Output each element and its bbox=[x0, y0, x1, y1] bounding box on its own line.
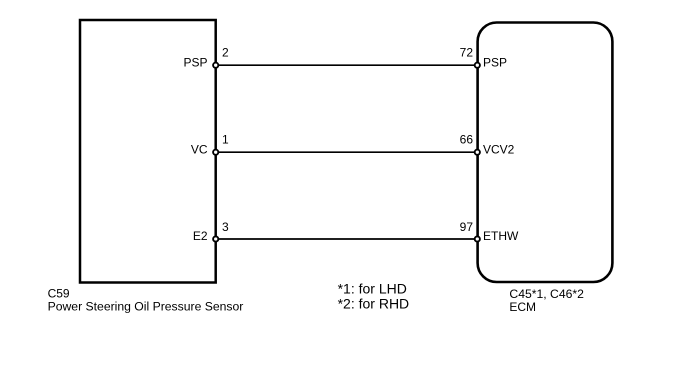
svg-text:PSP: PSP bbox=[183, 55, 207, 69]
ECM box C45/C46 bbox=[478, 23, 613, 283]
svg-text:E2: E2 bbox=[193, 229, 208, 243]
terminal circle sensor pin 1 bbox=[213, 150, 218, 155]
svg-text:2: 2 bbox=[222, 45, 229, 59]
svg-text:PSP: PSP bbox=[483, 55, 507, 69]
svg-text:66: 66 bbox=[460, 133, 474, 147]
svg-text:ETHW: ETHW bbox=[483, 229, 519, 243]
wire E2 to ETHW (pin 3 to pin 97) bbox=[216, 238, 478, 240]
wire VC to VCV2 (pin 1 to pin 66) bbox=[216, 151, 478, 153]
svg-text:Power Steering Oil Pressure Se: Power Steering Oil Pressure Sensor bbox=[48, 300, 244, 314]
connector box C59 Power Steering Oil Pressure Sensor bbox=[80, 20, 216, 283]
svg-text:1: 1 bbox=[222, 133, 229, 147]
svg-text:72: 72 bbox=[460, 45, 474, 59]
terminal circle sensor pin 2 bbox=[213, 63, 218, 68]
svg-text:C45*1, C46*2: C45*1, C46*2 bbox=[509, 287, 584, 301]
wire PSP (pin 2 to pin 72) bbox=[216, 64, 478, 66]
terminal circle ECM pin 97 bbox=[475, 236, 480, 241]
svg-text:*2: for RHD: *2: for RHD bbox=[338, 295, 410, 311]
svg-text:3: 3 bbox=[222, 220, 229, 234]
svg-text:VC: VC bbox=[191, 142, 208, 156]
svg-text:VCV2: VCV2 bbox=[483, 142, 515, 156]
terminal circle sensor pin 3 bbox=[213, 236, 218, 241]
terminal circle ECM pin 66 bbox=[475, 150, 480, 155]
terminal circle ECM pin 72 bbox=[475, 63, 480, 68]
svg-text:97: 97 bbox=[460, 220, 474, 234]
svg-text:C59: C59 bbox=[48, 286, 70, 300]
svg-text:*1: for LHD: *1: for LHD bbox=[338, 281, 407, 297]
svg-text:ECM: ECM bbox=[509, 300, 536, 314]
